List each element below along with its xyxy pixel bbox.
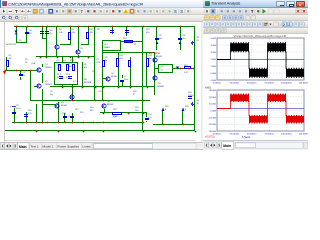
svg-text:QC1: QC1 [104,44,109,46]
svg-text:R1.8: R1.8 [66,74,71,76]
svg-text:Q3: Q3 [80,48,84,50]
svg-text:R4: R4 [59,29,62,31]
svg-text:28: 28 [197,40,200,42]
svg-text:5.000: 5.000 [211,38,217,40]
svg-text:4.000: 4.000 [211,45,217,47]
svg-text:Q1: Q1 [45,64,49,66]
svg-text:75.000ms: 75.000ms [264,133,275,135]
svg-text:Q6: Q6 [61,102,65,104]
svg-text:4.7k: 4.7k [97,62,102,64]
svg-text:R1.3: R1.3 [70,60,75,62]
svg-text:C16: C16 [49,30,53,32]
svg-text:R5: R5 [105,57,108,59]
svg-text:!: ! [125,10,126,14]
svg-text:125.000ms: 125.000ms [299,133,308,135]
svg-text:R17: R17 [161,66,165,68]
svg-text:1.5u: 1.5u [148,117,153,119]
svg-text:VBIAS: VBIAS [104,46,110,49]
svg-text:BC546B: BC546B [84,82,92,84]
svg-text:R24: R24 [123,38,127,40]
svg-text:R1.2: R1.2 [62,60,67,62]
svg-text:C2: C2 [23,72,26,74]
svg-text:V5: V5 [197,100,200,102]
svg-text:10u: 10u [49,33,53,35]
svg-text:T: T [80,9,83,14]
svg-text:0.000: 0.000 [211,111,217,113]
svg-text:447: 447 [84,79,88,81]
svg-text:0.000: 0.000 [211,73,217,75]
svg-text:125.000ms: 125.000ms [299,83,308,85]
svg-text:C14: C14 [148,114,152,116]
svg-text:20: 20 [134,44,137,46]
svg-text:BD909: BD909 [156,56,163,58]
svg-text:R12: R12 [149,55,153,57]
svg-text:8: 8 [185,109,187,111]
svg-text:R23: R23 [28,110,32,112]
svg-text:BZX84-5V6: BZX84-5V6 [6,44,17,46]
svg-text:C4: C4 [57,65,60,67]
svg-text:10u: 10u [159,38,163,40]
svg-text:100: 100 [135,110,139,112]
svg-text:620: 620 [90,32,94,34]
svg-text:BD908: BD908 [107,104,114,106]
svg-text:2N5551: 2N5551 [45,67,53,69]
svg-text:BIAS: BIAS [113,115,118,118]
svg-text:V3: V3 [197,37,200,39]
svg-text:Limits: Limits [83,145,92,149]
svg-text:0.000ms: 0.000ms [213,83,222,85]
svg-text:P1.2: P1.2 [57,74,62,76]
svg-text:10u: 10u [182,38,186,40]
svg-text:1.1: 1.1 [161,70,165,72]
svg-text:47k: 47k [9,58,13,60]
svg-text:R11: R11 [120,55,124,57]
svg-text:R14: R14 [135,107,139,109]
svg-text:R13: R13 [146,29,150,31]
svg-text:R1: R1 [9,55,12,57]
svg-text:620: 620 [90,110,94,112]
svg-text:47k: 47k [84,67,88,69]
svg-text:R24: R24 [90,107,94,109]
svg-text:v(OUT,5): v(OUT,5) [205,136,215,139]
svg-text:C7: C7 [124,76,127,78]
svg-text:2.000: 2.000 [211,59,217,61]
svg-text:28: 28 [197,103,200,105]
svg-text:3.000: 3.000 [211,52,217,54]
svg-text:2200u: 2200u [188,95,194,97]
svg-text:R22: R22 [113,109,117,111]
svg-text:1.3k: 1.3k [59,32,64,34]
svg-text:R2: R2 [72,29,75,31]
svg-text:75.000ms: 75.000ms [264,83,275,85]
svg-text:8: 8 [165,109,167,111]
svg-text:S: S [174,9,177,14]
svg-text:Q2: Q2 [45,81,49,83]
svg-text:BD140: BD140 [61,105,68,107]
svg-text:1.2k: 1.2k [72,32,77,34]
svg-text:C9: C9 [159,35,162,37]
svg-text:130: 130 [149,58,153,60]
svg-text:47u: 47u [29,33,33,35]
svg-text:25.000ms: 25.000ms [230,83,241,85]
svg-text:Main: Main [223,144,231,148]
svg-text:25.000ms: 25.000ms [230,133,241,135]
svg-text:C11: C11 [182,35,186,37]
svg-text:4.7k: 4.7k [120,58,125,60]
svg-text:Q4: Q4 [111,73,115,75]
svg-text:Q10: Q10 [157,83,162,85]
svg-text:4.2: 4.2 [73,81,77,83]
svg-text:R10: R10 [133,91,137,93]
svg-text:R21: R21 [75,109,79,111]
svg-text:R6: R6 [97,29,100,31]
svg-text:T: T [251,9,254,14]
svg-text:R9: R9 [84,64,87,66]
svg-text:T: T [15,9,18,14]
svg-text:2N5551: 2N5551 [45,84,53,86]
svg-text:47: 47 [133,94,136,96]
svg-text:R8: R8 [90,29,93,31]
svg-text:620: 620 [146,32,150,34]
svg-text:ECX10: ECX10 [57,77,64,79]
svg-text:R16: R16 [165,106,169,108]
svg-text:100.000ms: 100.000ms [281,133,293,135]
svg-text:S: S [180,9,183,14]
svg-text:Power Supplies: Power Supplies [58,145,80,149]
svg-text:C3: C3 [16,105,19,107]
svg-text:1k: 1k [25,62,28,64]
svg-text:50.000ms: 50.000ms [247,83,258,85]
svg-text:48.000: 48.000 [209,90,216,92]
svg-text:Q1A: Q1A [31,62,36,65]
svg-text:Text 1: Text 1 [31,145,40,149]
svg-text:R3: R3 [25,59,28,61]
svg-text:C4: C4 [56,60,59,62]
svg-text:Rail: Rail [68,66,72,68]
svg-text:C5: C5 [50,91,53,93]
svg-text:100p: 100p [124,79,129,81]
svg-text:470u: 470u [16,108,21,110]
svg-text:C13: C13 [62,113,66,115]
svg-text:1.000: 1.000 [211,66,217,68]
svg-text:4.2Ω: 4.2Ω [66,77,71,79]
svg-text:2N5686: 2N5686 [157,86,165,88]
svg-text:100.000ms: 100.000ms [281,83,293,85]
svg-text:R18: R18 [185,106,189,108]
svg-text:33p: 33p [50,94,54,96]
svg-text:220: 220 [80,112,84,114]
svg-text:16.000: 16.000 [209,104,216,106]
svg-text:+: + [10,105,12,108]
svg-text:Model 1: Model 1 [43,145,54,149]
svg-text:T (Secs): T (Secs) [242,137,251,139]
svg-text:C8: C8 [29,30,32,32]
svg-text:0.12: 0.12 [184,72,189,74]
svg-text:1u: 1u [23,75,26,77]
svg-text:C10: C10 [188,92,192,94]
svg-text:-32.000: -32.000 [209,124,217,126]
svg-text:4.7k: 4.7k [28,113,33,115]
svg-text:32.000: 32.000 [209,97,216,99]
svg-text:1k: 1k [105,60,108,62]
svg-text:50.000ms: 50.000ms [247,133,258,135]
svg-text:-16.000: -16.000 [209,117,217,119]
svg-text:D1: D1 [19,40,22,42]
svg-text:R7: R7 [97,59,100,61]
svg-text:BD139: BD139 [111,76,118,78]
svg-text:Q8: Q8 [107,101,111,103]
svg-text:Main: Main [19,145,27,149]
